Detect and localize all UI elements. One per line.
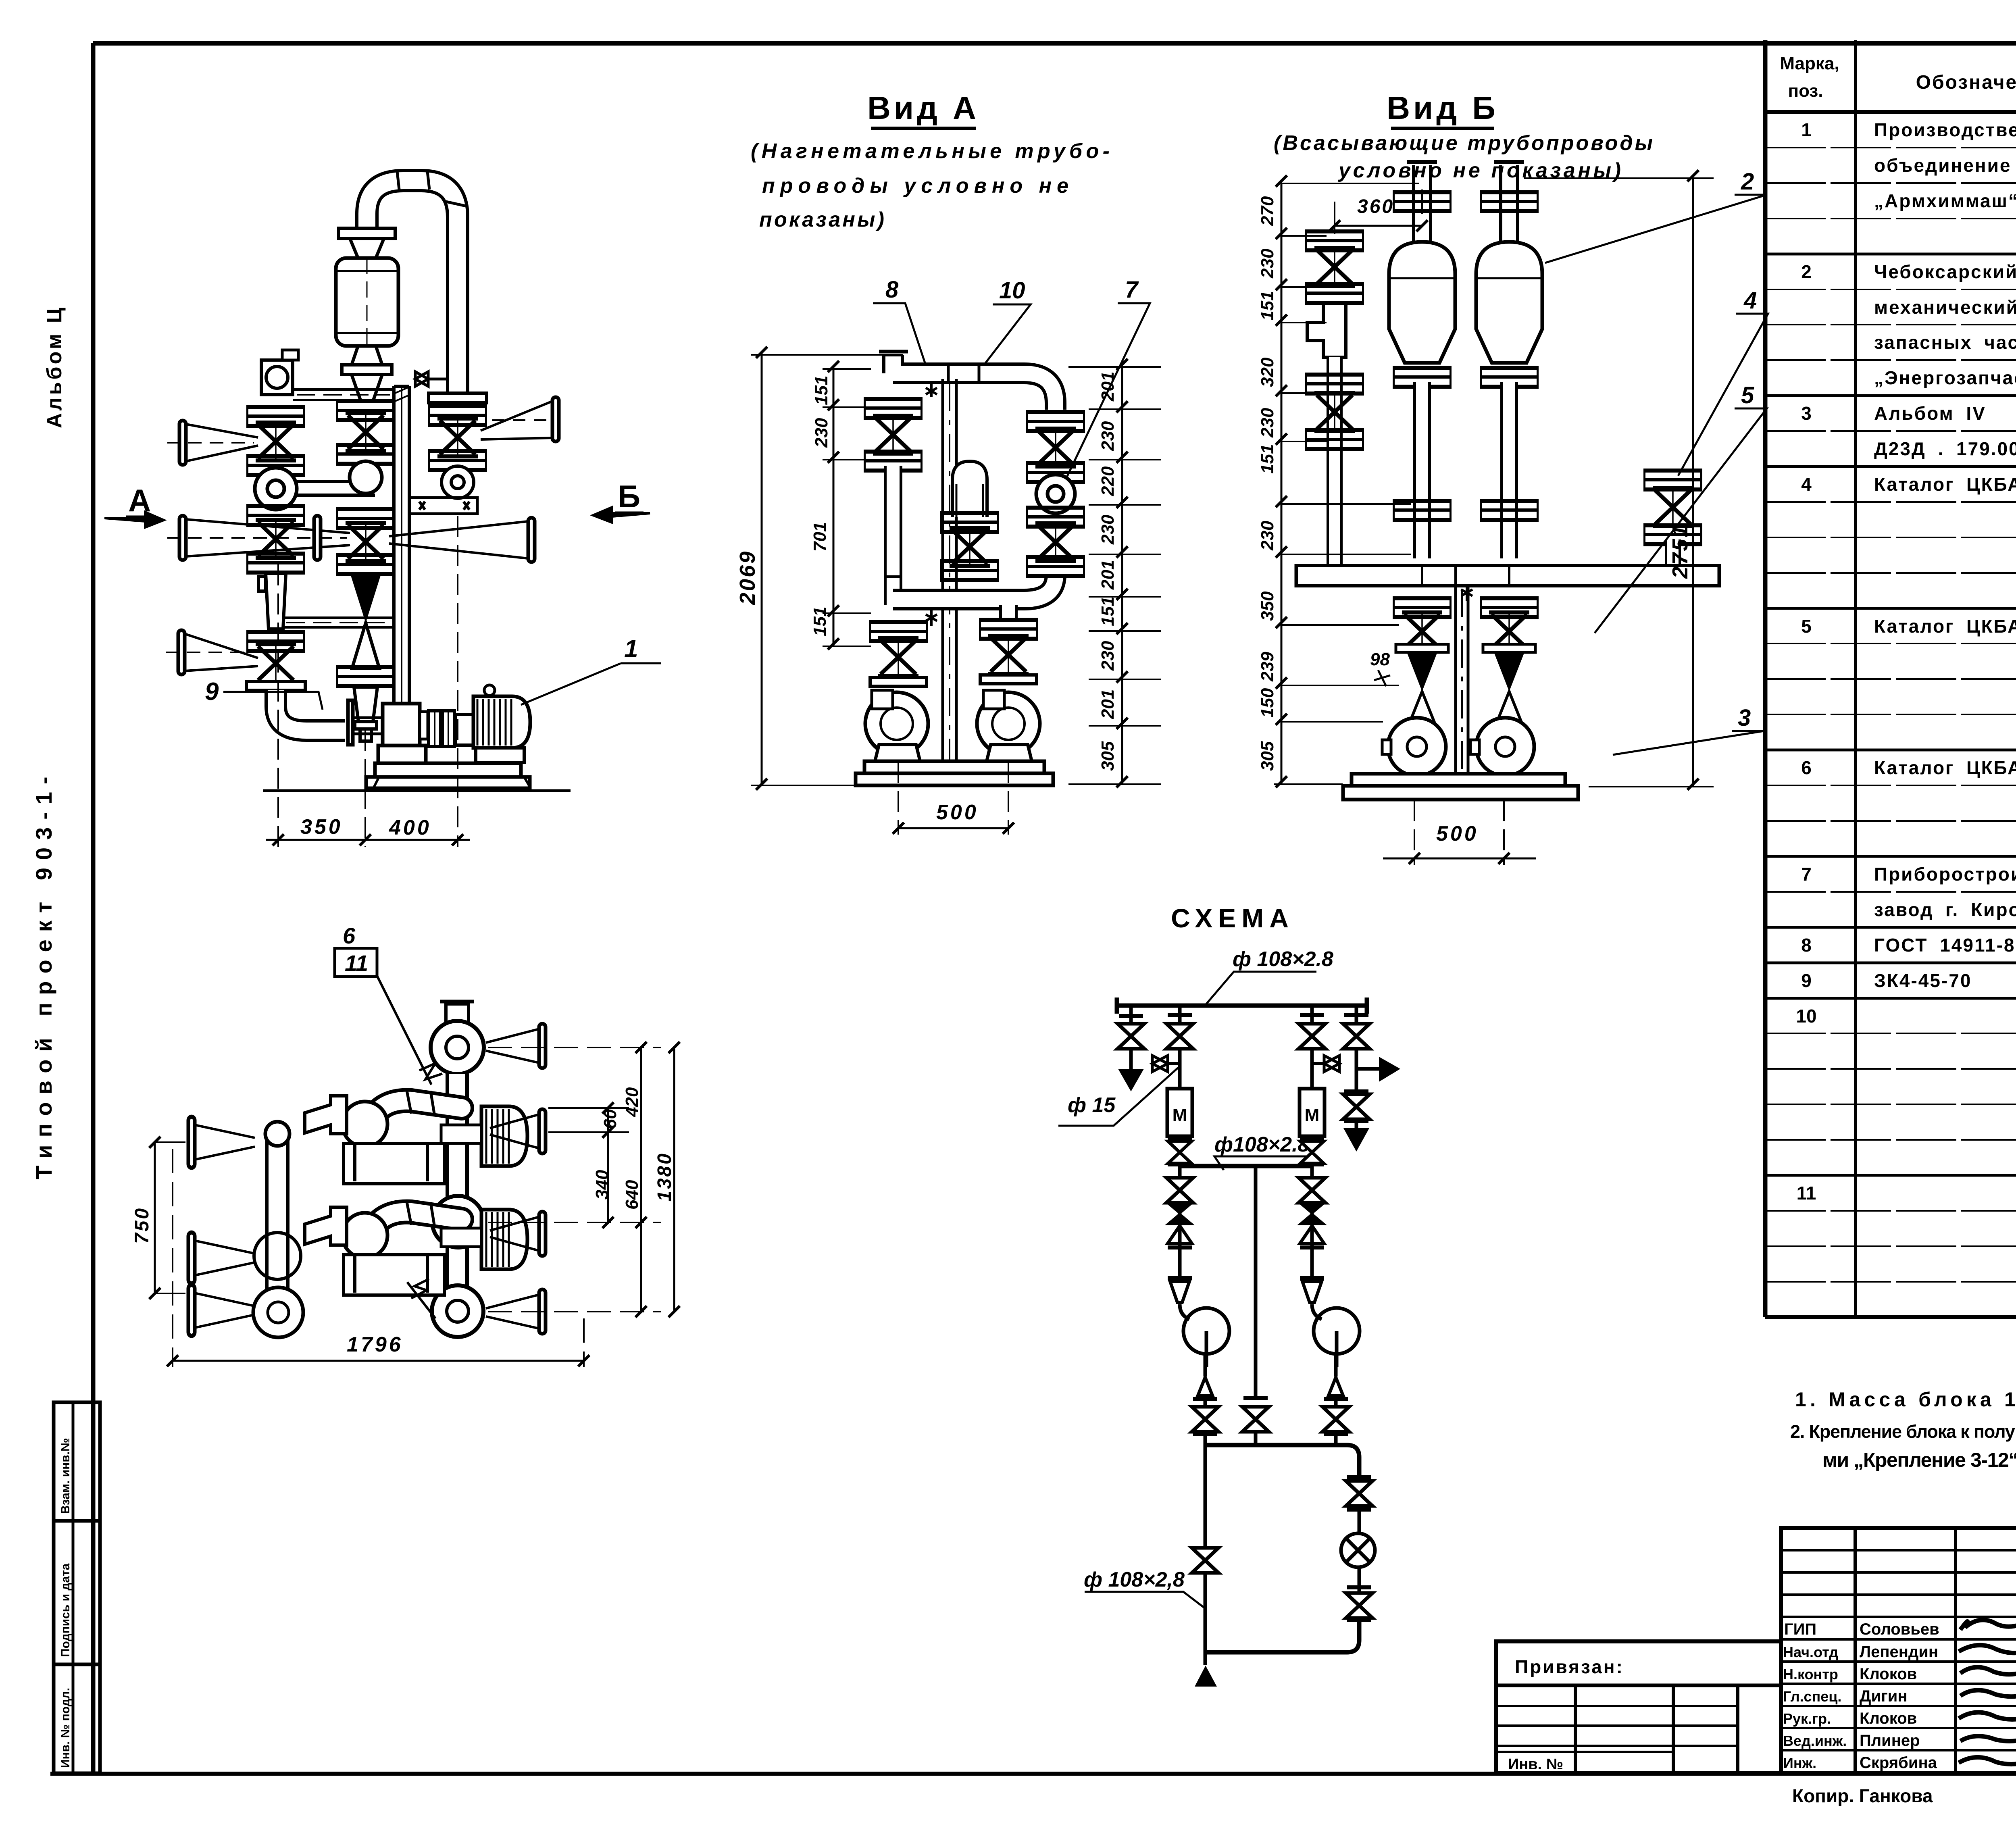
schema top header pipe [1117, 998, 1367, 1014]
svg-text:СХЕМА: СХЕМА [1171, 903, 1294, 933]
svg-text:151: 151 [810, 607, 830, 636]
right chain flange 4 [1026, 555, 1085, 578]
svg-text:420: 420 [622, 1087, 642, 1117]
pump 2 volute front [977, 690, 1040, 755]
svg-text:5: 5 [1801, 616, 1812, 637]
right flange bar 1 + cone [539, 1024, 546, 1068]
chain A bottom flange [246, 630, 305, 653]
svg-text:305: 305 [1098, 741, 1118, 771]
bottom donut right [432, 1285, 483, 1337]
chain A bottom gate valve [256, 644, 296, 682]
svg-text:Обозначение: Обозначение [1916, 72, 2016, 93]
below-frame annotations [1792, 1785, 2016, 1808]
coupling [429, 711, 454, 746]
leg2 valve mid [1168, 1141, 1191, 1164]
apparatus 2 leg flange [1480, 499, 1539, 522]
right aux stub [1665, 539, 1681, 564]
svg-text:9: 9 [1801, 970, 1812, 991]
left aux offset bracket [1307, 304, 1346, 357]
source arrow [1195, 1666, 1217, 1687]
left standpipe top cap [265, 1122, 289, 1146]
leg3 valve (open up-triangle) [1300, 1226, 1324, 1243]
chain B flange pair 2 [336, 443, 395, 466]
lower left elbow circle [342, 1213, 387, 1258]
upper tie rail to column (dashed) [293, 389, 394, 400]
apparatus 2 suction riser [1494, 162, 1524, 242]
dimension line 350/400 [266, 834, 470, 845]
pump leg 1 flange [1393, 596, 1452, 619]
bottom manifold pipe [1205, 1445, 1359, 1652]
svg-text:305: 305 [1258, 741, 1277, 771]
leg 2 wire [1180, 1006, 1189, 1319]
svg-text:7: 7 [1125, 277, 1139, 303]
svg-text:10: 10 [999, 277, 1025, 304]
svg-text:Д23Д . 179.000: Д23Д . 179.000 [1874, 438, 2016, 459]
svg-text:Альбом Ц: Альбом Ц [43, 305, 66, 428]
right aux gate valve [1653, 488, 1693, 526]
apparatus 2 riser flange [1480, 190, 1539, 213]
leg1 valve [1118, 1024, 1144, 1049]
leg3 valve top [1299, 1024, 1325, 1049]
plan dim 60/340 [548, 1102, 629, 1228]
pump 2 stack flange 2 [980, 675, 1037, 684]
upper left elbow circle [342, 1102, 387, 1147]
svg-text:2: 2 [1801, 261, 1812, 282]
pump body plan 2 [305, 1207, 444, 1295]
chain B meter circle [350, 461, 382, 494]
chain B upper gate valve [346, 413, 386, 451]
vessel outlet taper to chain B [352, 375, 382, 401]
chain A bottom flange 2 [246, 681, 305, 690]
chain C support bracket rail [410, 498, 477, 514]
svg-text:Привязан:: Привязан: [1515, 1656, 1624, 1677]
chain B flange pair 3 [336, 507, 395, 530]
handwheel left 3 [178, 630, 185, 675]
svg-text:Марка,: Марка, [1780, 54, 1839, 73]
chain A mid flange pair [246, 454, 305, 477]
svg-text:Гл.спец.: Гл.спец. [1783, 1688, 1841, 1705]
svg-text:поз.: поз. [1788, 81, 1823, 101]
chain A upper gate valve [256, 423, 296, 460]
svg-text:230: 230 [1098, 514, 1118, 545]
handwheel plan left 2 [188, 1233, 195, 1284]
privyazan block [1496, 1641, 1781, 1773]
svg-text:150: 150 [1258, 688, 1277, 718]
svg-text:показаны): показаны) [759, 208, 884, 231]
svg-text:ф108×2.8: ф108×2.8 [1214, 1133, 1310, 1156]
apparatus 1 suction riser [1407, 162, 1437, 242]
chain B bottom flange [336, 665, 395, 688]
support column [1456, 587, 1468, 774]
svg-text:Альбом IV: Альбом IV [1874, 403, 1986, 424]
svg-text:340: 340 [592, 1170, 612, 1200]
pump2 outlet funnel [1329, 1377, 1343, 1395]
table header labels [1780, 52, 2016, 102]
overall dim 2751 right [1524, 170, 1714, 790]
bottom dim 500 [1383, 800, 1536, 865]
apparatus 1 body [1389, 242, 1455, 363]
leg2 check valve (filled) [1167, 1203, 1193, 1225]
leg4 valve lower [1343, 1094, 1370, 1119]
svg-text:230: 230 [1098, 641, 1118, 671]
middle chain flange pair [940, 511, 999, 534]
signature squiggles [1959, 1609, 2016, 1764]
svg-text:151: 151 [1098, 597, 1118, 626]
coupling plan 2 [441, 1228, 481, 1247]
water meter VT-100 circle [1036, 475, 1075, 513]
pump leg 2 gate valve [1489, 612, 1529, 650]
svg-text:„Энергозапчасть“: „Энергозапчасть“ [1874, 367, 2016, 388]
motor body [473, 685, 530, 748]
apparatus 2 leg pipe [1500, 382, 1518, 558]
coupling plan 1 [441, 1125, 481, 1143]
svg-text:механический завод: механический завод [1874, 297, 2016, 318]
left step dims [823, 361, 871, 650]
chain A flange pair below valve [246, 552, 305, 575]
svg-text:ГИП: ГИП [1784, 1620, 1816, 1638]
svg-text:Вид Б: Вид Б [1387, 90, 1498, 126]
pump 1 volute front [865, 690, 929, 755]
right main pipe vertical [446, 1074, 469, 1310]
svg-text:проводы условно не: проводы условно не [762, 174, 1068, 198]
label 11 box [335, 948, 377, 977]
svg-text:350: 350 [300, 815, 343, 839]
svg-text:151: 151 [1258, 444, 1277, 474]
svg-text:Соловьев: Соловьев [1860, 1620, 1939, 1638]
notes text [1790, 1388, 2016, 1471]
pump 2 circle [1314, 1308, 1360, 1367]
svg-text:98: 98 [1370, 650, 1390, 669]
svg-text:„Армхиммаш“: „Армхиммаш“ [1874, 190, 2016, 211]
left standpipe mid joint circle [254, 1233, 301, 1279]
main outlet line down [1204, 1445, 1207, 1665]
pump 1 stack flange [869, 620, 928, 643]
chain A meter body circle [255, 468, 297, 510]
outlet valve [1192, 1548, 1218, 1573]
svg-text:7: 7 [1801, 864, 1812, 885]
svg-text:320: 320 [1258, 357, 1277, 387]
svg-text:М: М [1173, 1105, 1187, 1125]
manifold drain mark [926, 610, 937, 626]
chain A flange below meter [246, 504, 305, 527]
pump2 outlet leg [1334, 1354, 1338, 1445]
middle relief chain dome [952, 461, 987, 517]
svg-text:1380: 1380 [654, 1152, 675, 1202]
svg-text:Лепендин: Лепендин [1860, 1643, 1938, 1661]
signature rows text [1783, 1620, 1939, 1772]
right descender valve lower [1346, 1593, 1372, 1618]
handwheel plan left 3 [188, 1285, 195, 1336]
leg3 check valve (filled) [1299, 1203, 1325, 1225]
middle pipe valve [1242, 1407, 1269, 1432]
gooseneck discharge pipe [367, 171, 468, 393]
suction elbow to pump [276, 690, 345, 731]
svg-text:объединение: объединение [1874, 155, 2012, 176]
svg-text:5: 5 [1741, 382, 1754, 408]
motor 1 plan [481, 1106, 527, 1166]
svg-text:230: 230 [1098, 421, 1118, 451]
leg3 valve below junction [1299, 1178, 1325, 1203]
dim extension lines [278, 516, 458, 847]
apparatus 1 leg pipe [1413, 382, 1431, 558]
branch tee mark on top pipe [926, 384, 937, 397]
left aux flange 4 [1305, 428, 1364, 451]
title block signature table [1781, 1528, 2016, 1773]
svg-text:151: 151 [1258, 291, 1277, 321]
pump 2 stack tee from manifold [999, 605, 1018, 621]
view marker A arrow [104, 512, 164, 527]
motor foot [476, 748, 524, 762]
leader from label box [377, 976, 442, 1085]
svg-text:Клоков: Клоков [1860, 1710, 1917, 1727]
svg-text:Взам. инв.№: Взам. инв.№ [59, 1438, 72, 1514]
svg-text:Инв. № подл.: Инв. № подл. [59, 1688, 72, 1768]
apparatus 1 riser flange [1393, 190, 1452, 213]
chain B taper to pump inlet [354, 687, 377, 741]
svg-text:Б: Б [618, 479, 640, 514]
left aux gate valve 2 [1314, 393, 1355, 431]
svg-text:500: 500 [936, 801, 979, 824]
right chain top flange pair [1026, 410, 1085, 433]
svg-text:400: 400 [389, 816, 431, 839]
right chain gate valve top [1035, 429, 1076, 466]
plan dim 1380 [669, 1042, 680, 1317]
downpipe bottom flange [429, 393, 487, 403]
right chain flange 2 [1026, 461, 1085, 484]
svg-text:Нач.отд: Нач.отд [1783, 1644, 1838, 1660]
leg3 valve mid [1300, 1141, 1324, 1164]
left chain long pipe [884, 466, 902, 605]
leg2 valve top [1166, 1024, 1193, 1049]
leg3 reducer funnel [1302, 1281, 1322, 1302]
chain A taper fitting [258, 573, 286, 629]
svg-text:2069: 2069 [735, 550, 760, 605]
apparatus 2 body [1476, 242, 1542, 363]
left chain flange pair 2 [864, 450, 923, 473]
left standpipe bottom circle [253, 1287, 303, 1337]
base plinth [856, 761, 1053, 785]
leg2 valve (open up-triangle) [1168, 1226, 1192, 1243]
apparatus 1 leg flange [1393, 499, 1452, 522]
pump leg 1 gate valve [1402, 612, 1442, 650]
pump 2 volute [1470, 718, 1534, 776]
shaft seal blocks [420, 712, 428, 739]
pump leg 2 flange 2 [1483, 644, 1535, 652]
plan dim 420/640 [488, 1042, 661, 1317]
chain A upper flange pair [246, 405, 305, 428]
svg-text:4: 4 [1801, 474, 1812, 495]
base plate [366, 763, 531, 788]
top discharge pipe run [879, 352, 1056, 410]
svg-text:Инж.: Инж. [1783, 1755, 1816, 1771]
leg 4 blowoff branch [1356, 1006, 1379, 1128]
gas meter circle with X [1341, 1533, 1375, 1567]
right flange bar 2 + cone [539, 1109, 546, 1154]
leg2 sampling stub valve f15 [1168, 1062, 1180, 1065]
svg-text:Копир. Ганкова: Копир. Ганкова [1792, 1785, 1933, 1806]
chain B flange pair top [336, 399, 395, 422]
pump1 outlet valve [1192, 1407, 1218, 1432]
svg-text:М: М [1305, 1105, 1320, 1125]
second header pipe f108x2.8 [1180, 1164, 1312, 1168]
chain C lower flange pair [428, 449, 487, 472]
left chain upper gate valve [873, 416, 913, 454]
svg-text:Типовой проект 903-1-: Типовой проект 903-1- [31, 769, 56, 1179]
svg-text:Каталог ЦКБА: Каталог ЦКБА [1874, 616, 2016, 637]
leg2 magnetic apparatus M box [1167, 1089, 1192, 1136]
chain B mid gate valve [346, 523, 386, 561]
chain B open cone below [352, 623, 379, 668]
svg-text:(Всасывающие трубопроводы: (Всасывающие трубопроводы [1274, 131, 1653, 155]
svg-text:Приборостроительный: Приборостроительный [1874, 864, 2016, 885]
base plate [1343, 774, 1578, 800]
motor 2 plan [481, 1210, 527, 1269]
right aux flange 2 [1643, 523, 1702, 546]
svg-text:230: 230 [812, 418, 831, 448]
svg-text:ГОСТ 14911-82: ГОСТ 14911-82 [1874, 935, 2016, 956]
svg-text:Вид А: Вид А [867, 90, 979, 126]
overall height dim 2069 [751, 347, 903, 790]
dim 360 top [1329, 190, 1428, 234]
leg2 valve below junction [1166, 1178, 1193, 1203]
svg-text:2: 2 [1741, 169, 1754, 195]
left aux chain flange top [1305, 229, 1364, 252]
svg-text:2. Крепление блока к полу выпо: 2. Крепление блока к полу выполнить четы… [1790, 1421, 2016, 1442]
svg-text:Подпись и дата: Подпись и дата [59, 1563, 72, 1657]
right chain flange 3 [1026, 506, 1085, 529]
suction manifold [1296, 564, 1719, 587]
svg-text:230: 230 [1258, 408, 1277, 438]
svg-text:220: 220 [1098, 466, 1118, 496]
svg-text:201: 201 [1098, 689, 1118, 719]
vessel bottom neck [352, 346, 382, 365]
svg-text:ф 15: ф 15 [1068, 1093, 1116, 1117]
label 1 leader [521, 663, 661, 705]
leg 1 drain: wire [1129, 1006, 1133, 1069]
svg-text:239: 239 [1258, 652, 1277, 682]
pump1 outlet leg [1204, 1354, 1207, 1445]
pump1 outlet funnel [1198, 1377, 1212, 1395]
leg4 drain arrow down [1343, 1128, 1369, 1152]
label 9 leader [223, 692, 323, 710]
svg-text:6: 6 [343, 923, 356, 948]
left chain upper flange pair [864, 397, 923, 420]
pump pedestals [875, 745, 1032, 761]
middle chain flange pair 2 [940, 559, 999, 582]
left aux chain flange 2 [1305, 282, 1364, 305]
right flange bar 3 + cone [539, 1212, 546, 1256]
handwheel for chain C valve [552, 397, 559, 441]
pump2 outlet valve [1322, 1407, 1349, 1432]
vessel neck [350, 239, 384, 258]
plan dim 750 left [149, 1137, 185, 1299]
pump body plan 1 [305, 1096, 444, 1184]
svg-text:Скрябина: Скрябина [1860, 1754, 1937, 1772]
support column [394, 386, 409, 786]
ground line [263, 789, 571, 792]
view marker B arrow [593, 507, 650, 523]
vessel bottom flange [342, 365, 392, 375]
svg-text:Каталог ЦКБА: Каталог ЦКБА [1874, 474, 2016, 495]
cross pipe from meter to chain B [297, 481, 375, 495]
drain cock on downpipe [415, 372, 446, 386]
chain C elbow device [442, 466, 474, 498]
svg-text:Производственное: Производственное [1874, 119, 2016, 140]
svg-text:60: 60 [600, 1109, 620, 1129]
svg-text:ми „Крепление 3-12“ (см. лист: ми „Крепление 3-12“ (см. лист 33) [1822, 1449, 2016, 1471]
svg-text:8: 8 [885, 277, 899, 303]
chain C gate valve [437, 419, 478, 456]
svg-text:10: 10 [1796, 1006, 1816, 1027]
bottom dim 500 [893, 762, 1014, 835]
plan dim 1796 bottom [167, 1149, 589, 1367]
handwheel mid (chain B valve) [314, 516, 321, 560]
left step dims [1274, 175, 1419, 787]
svg-text:230: 230 [1258, 248, 1277, 279]
svg-text:201: 201 [1098, 372, 1118, 402]
leg 3 wire [1312, 1006, 1322, 1319]
svg-text:запасных частей: запасных частей [1874, 332, 2016, 353]
pump casing [348, 700, 426, 763]
svg-text:Чебоксарский электро-: Чебоксарский электро- [1874, 261, 2016, 282]
suction manifold pipe [893, 575, 1056, 600]
svg-text:ф 108×2.8: ф 108×2.8 [1233, 948, 1333, 971]
pump leg 2 check valve (filled) [1494, 653, 1524, 691]
chain B flange pair 4 [336, 553, 395, 576]
svg-text:1796: 1796 [347, 1333, 403, 1356]
svg-text:230: 230 [1258, 521, 1277, 551]
svg-text:завод г. Кировобад: завод г. Кировобад [1874, 899, 2016, 920]
chain B filled wedge check valve [350, 574, 381, 623]
handwheel plan left 1 [188, 1117, 195, 1168]
handwheel left 2 [179, 516, 186, 560]
zigzag break mark bottom [407, 1279, 435, 1318]
right chain gate valve bottom [1035, 523, 1076, 561]
manifold drain mark [1461, 587, 1472, 601]
svg-text:201: 201 [1098, 560, 1118, 590]
table body rows text [1796, 119, 2016, 1310]
svg-text:11: 11 [345, 950, 368, 976]
left standpipe capsule [265, 1135, 289, 1311]
specification table grid [1765, 40, 2016, 1317]
svg-text:701: 701 [810, 522, 830, 552]
svg-text:3: 3 [1738, 705, 1751, 731]
right step dims [1068, 359, 1161, 787]
svg-text:640: 640 [622, 1180, 642, 1210]
pump 2 stack flange [979, 618, 1038, 641]
svg-text:Клоков: Клоков [1860, 1665, 1917, 1683]
svg-text:350: 350 [1258, 591, 1277, 621]
pump 1 volute [1382, 718, 1446, 776]
pump 2 stack gate valve [988, 636, 1029, 674]
svg-text:270: 270 [1258, 196, 1277, 226]
pump 1 circle [1183, 1308, 1229, 1367]
left aux chain gate valve [1314, 248, 1355, 286]
svg-text:Дигин: Дигин [1860, 1687, 1908, 1705]
svg-text:ЗК4-45-70: ЗК4-45-70 [1874, 970, 1972, 991]
svg-text:151: 151 [812, 376, 831, 405]
pump leg 1 flange 2 [1396, 644, 1448, 652]
chain C flange pair [428, 404, 487, 427]
svg-text:Рук.гр.: Рук.гр. [1783, 1710, 1831, 1727]
pump 1 stack gate valve [878, 638, 918, 676]
right descender valve upper [1358, 1475, 1361, 1622]
vessel (air separator) top flange [339, 228, 395, 239]
left aux pipe [1327, 357, 1343, 564]
chain A top elbow fitting [261, 350, 298, 395]
svg-text:1: 1 [1801, 119, 1812, 140]
vessel body [336, 258, 398, 346]
